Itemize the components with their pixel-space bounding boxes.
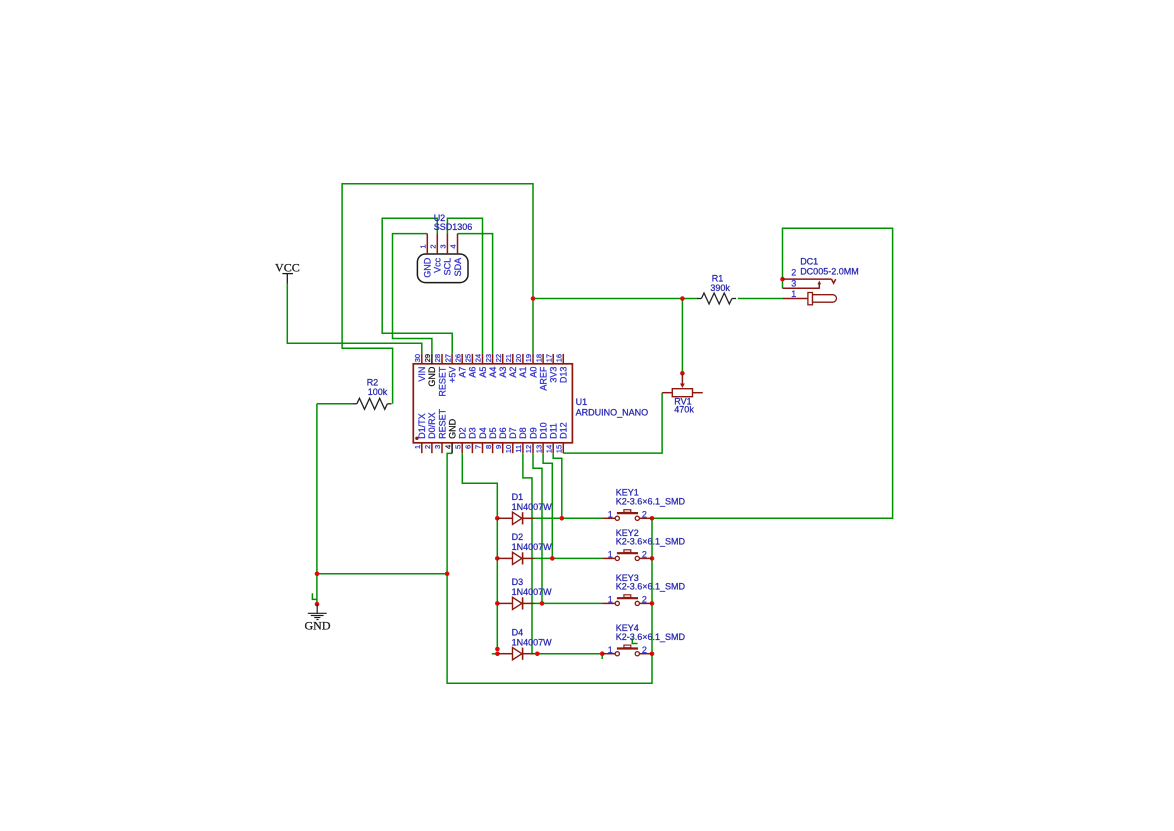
svg-text:14: 14 bbox=[544, 445, 553, 453]
svg-text:D12: D12 bbox=[559, 422, 569, 439]
junction KEY3 pin2 bbox=[650, 601, 655, 606]
wire U1 pin13 D10 to row2 node bbox=[543, 453, 552, 558]
wire DC1 pin2 loop to KEY1 pin2 node bbox=[652, 228, 893, 518]
wire node A0 to R1 left bbox=[533, 298, 698, 300]
diode D4 1N4007W bbox=[497, 648, 534, 660]
svg-text:1N4007W: 1N4007W bbox=[512, 542, 553, 552]
svg-text:9: 9 bbox=[494, 445, 503, 449]
junction GND rail left bbox=[315, 572, 320, 577]
switch KEY2 K2-3.6x6.1_SMD bbox=[603, 550, 652, 561]
junction D4 anode bbox=[495, 652, 500, 657]
resistor R2 bbox=[353, 403, 357, 405]
U1 bottom pin names bbox=[417, 408, 569, 439]
svg-text:390k: 390k bbox=[710, 283, 730, 293]
svg-text:SDA: SDA bbox=[453, 258, 463, 277]
junction row3 / D9 bbox=[540, 601, 545, 606]
wire U2 pin4 SDA to U1 pin23 A4 bbox=[458, 234, 493, 354]
svg-text:2: 2 bbox=[642, 595, 647, 605]
svg-text:1N4007W: 1N4007W bbox=[512, 587, 553, 597]
wire D2 cathode to KEY2 pin1 bbox=[534, 557, 603, 559]
svg-text:27: 27 bbox=[443, 354, 452, 362]
junction D3 anode bbox=[495, 601, 500, 606]
svg-text:2: 2 bbox=[791, 268, 796, 278]
svg-text:1: 1 bbox=[608, 645, 613, 655]
svg-text:26: 26 bbox=[453, 354, 462, 362]
svg-text:DC005-2.0MM: DC005-2.0MM bbox=[800, 267, 859, 277]
svg-text:D1/TX: D1/TX bbox=[417, 413, 427, 439]
svg-text:A0: A0 bbox=[528, 367, 538, 378]
svg-text:D2: D2 bbox=[512, 532, 524, 542]
svg-text:D1: D1 bbox=[512, 492, 524, 502]
svg-text:1: 1 bbox=[791, 289, 796, 299]
wire R2 right to node A0 and U1 pin19 bbox=[342, 184, 533, 404]
junction RV1 wiper net bbox=[680, 296, 685, 301]
svg-text:1: 1 bbox=[419, 244, 428, 248]
junction row2 / D10 bbox=[550, 556, 555, 561]
power VCC bbox=[282, 274, 293, 284]
svg-text:6: 6 bbox=[464, 445, 473, 449]
diode D3 1N4007W bbox=[497, 597, 534, 609]
svg-text:AREF: AREF bbox=[538, 366, 548, 391]
svg-text:3: 3 bbox=[791, 278, 796, 288]
wire VCC to U1 pin30 VIN bbox=[287, 283, 422, 354]
svg-text:GND: GND bbox=[447, 418, 457, 439]
diode D1 1N4007W bbox=[497, 512, 534, 524]
wire RV1 wiper to node A0 net bbox=[681, 299, 683, 373]
wire R2 left to GND symbol bbox=[316, 404, 318, 604]
U1 bottom pin numbers 1..15 bbox=[413, 445, 564, 453]
potentiometer RV1 bbox=[662, 373, 703, 397]
switch KEY1 K2-3.6x6.1_SMD bbox=[603, 510, 652, 521]
junction D2 anode bbox=[495, 556, 500, 561]
svg-text:1: 1 bbox=[608, 509, 613, 519]
junction KEY4 pin1 bbox=[600, 651, 605, 656]
svg-text:2: 2 bbox=[642, 550, 647, 560]
junction D1 anode bbox=[495, 516, 500, 521]
svg-text:D10: D10 bbox=[538, 422, 548, 439]
svg-text:+5V: +5V bbox=[447, 367, 457, 383]
svg-text:1: 1 bbox=[608, 595, 613, 605]
svg-text:D3: D3 bbox=[512, 577, 524, 587]
wire stub left of D4 anode bbox=[492, 653, 498, 655]
junction at GND symbol bbox=[315, 602, 320, 607]
wire D1 cathode to KEY1 pin1 bbox=[534, 517, 603, 519]
U2 pin names bbox=[423, 257, 463, 278]
svg-text:U1: U1 bbox=[576, 397, 588, 407]
wire R1 right to DC1 pin1 bbox=[738, 298, 783, 300]
wire U1 pin12 D9 to row3 node bbox=[533, 453, 542, 603]
svg-text:K2-3.6×6.1_SMD: K2-3.6×6.1_SMD bbox=[616, 537, 686, 547]
svg-text:DC1: DC1 bbox=[800, 256, 818, 266]
svg-text:28: 28 bbox=[433, 354, 442, 362]
svg-text:D4: D4 bbox=[512, 627, 524, 637]
svg-text:D4: D4 bbox=[478, 427, 488, 439]
svg-text:A6: A6 bbox=[468, 367, 478, 378]
svg-text:D0/RX: D0/RX bbox=[427, 412, 437, 439]
svg-text:4: 4 bbox=[449, 244, 458, 248]
svg-text:VIN: VIN bbox=[417, 367, 427, 382]
junction RV1 wiper pin bbox=[680, 371, 685, 376]
svg-text:2: 2 bbox=[642, 509, 647, 519]
svg-text:K2-3.6×6.1_SMD: K2-3.6×6.1_SMD bbox=[616, 582, 686, 592]
svg-text:SCL: SCL bbox=[443, 258, 453, 276]
ground GND symbol bbox=[308, 604, 327, 619]
svg-text:19: 19 bbox=[524, 354, 533, 362]
svg-text:17: 17 bbox=[544, 354, 553, 362]
U1 bottom pin stubs bbox=[422, 443, 564, 453]
junction row1 / D11 bbox=[560, 516, 565, 521]
wire hook above KEY4 bbox=[632, 638, 637, 643]
svg-text:15: 15 bbox=[555, 445, 564, 453]
svg-text:20: 20 bbox=[514, 354, 523, 362]
svg-text:D8: D8 bbox=[518, 427, 528, 439]
wire stub below KEY4 pin1 node bbox=[601, 654, 603, 659]
svg-text:30: 30 bbox=[413, 354, 422, 362]
svg-text:3V3: 3V3 bbox=[549, 367, 559, 383]
svg-text:470k: 470k bbox=[674, 404, 694, 414]
svg-text:D5: D5 bbox=[488, 427, 498, 439]
wire U1 pin5 D2 to diode anode column bbox=[462, 453, 497, 649]
svg-text:GND: GND bbox=[423, 257, 433, 278]
svg-text:ARDUINO_NANO: ARDUINO_NANO bbox=[576, 407, 649, 417]
wire U1 pin4 GND down around to key column bbox=[447, 453, 652, 683]
svg-text:2: 2 bbox=[423, 445, 432, 449]
svg-text:D11: D11 bbox=[549, 423, 559, 439]
junction D4 anode column upper bbox=[495, 647, 500, 652]
svg-text:RESET: RESET bbox=[437, 408, 447, 439]
svg-text:D7: D7 bbox=[508, 427, 518, 439]
svg-text:12: 12 bbox=[524, 445, 533, 453]
U1 top pin numbers 30..16 bbox=[413, 354, 564, 362]
junction node A0 / R1 / R2 bbox=[531, 296, 536, 301]
switch KEY4 K2-3.6x6.1_SMD bbox=[603, 645, 652, 656]
resistor R1 bbox=[697, 298, 701, 300]
svg-text:D2: D2 bbox=[458, 427, 468, 439]
junction KEY4 pin2 bbox=[650, 652, 655, 657]
wire U2 pin1 GND to U1 pin29 bbox=[393, 234, 432, 354]
svg-text:Vcc: Vcc bbox=[433, 257, 443, 273]
wire U2 pin2 Vcc to U1 pin27 +5V bbox=[382, 218, 452, 354]
svg-text:SSD1306: SSD1306 bbox=[434, 222, 473, 232]
connector U2 SSD1306 bbox=[417, 234, 468, 283]
svg-text:A7: A7 bbox=[458, 367, 468, 378]
svg-text:8: 8 bbox=[484, 445, 493, 449]
junction KEY2 pin2 bbox=[650, 556, 655, 561]
svg-text:GND: GND bbox=[305, 618, 331, 632]
svg-text:1: 1 bbox=[413, 445, 422, 449]
svg-text:1: 1 bbox=[608, 550, 613, 560]
wire U1 pin11 D8 to row4 node bbox=[523, 453, 602, 654]
connector DC1 DC005-2.0MM bbox=[783, 279, 837, 305]
svg-text:100k: 100k bbox=[368, 387, 388, 397]
wire DC1 pin2 to pin3 bbox=[782, 279, 784, 288]
svg-text:GND: GND bbox=[427, 366, 437, 387]
svg-text:D6: D6 bbox=[498, 427, 508, 439]
U1 pin1 marker dot bbox=[415, 437, 418, 440]
svg-text:11: 11 bbox=[514, 445, 523, 453]
junction KEY1 pin2 bbox=[650, 516, 655, 521]
svg-text:4: 4 bbox=[443, 445, 452, 449]
svg-text:5: 5 bbox=[453, 445, 462, 449]
svg-text:RESET: RESET bbox=[437, 366, 447, 397]
wire hook near GND symbol bbox=[312, 593, 317, 599]
junction GND rail right bbox=[445, 572, 450, 577]
svg-text:1N4007W: 1N4007W bbox=[512, 637, 553, 647]
junction DC1 pin2/pin3 bbox=[780, 277, 785, 282]
svg-text:13: 13 bbox=[534, 445, 543, 453]
svg-text:K2-3.6×6.1_SMD: K2-3.6×6.1_SMD bbox=[616, 497, 686, 507]
svg-text:10: 10 bbox=[504, 445, 513, 453]
svg-text:D3: D3 bbox=[468, 427, 478, 439]
svg-text:18: 18 bbox=[534, 354, 543, 362]
wire D3 cathode to KEY3 pin1 bbox=[534, 602, 603, 604]
IC U1 ARDUINO_NANO body bbox=[413, 364, 572, 443]
svg-text:D13: D13 bbox=[559, 367, 569, 384]
svg-text:K2-3.6×6.1_SMD: K2-3.6×6.1_SMD bbox=[616, 632, 686, 642]
svg-text:21: 21 bbox=[504, 354, 513, 362]
svg-text:16: 16 bbox=[555, 354, 564, 362]
svg-text:VCC: VCC bbox=[275, 261, 300, 275]
svg-text:A2: A2 bbox=[508, 367, 518, 378]
junction row4 / D8 bbox=[535, 652, 540, 657]
wire to R2 left lead bbox=[317, 403, 353, 405]
wire U2 pin3 SCL to U1 pin24 A5 bbox=[447, 218, 482, 354]
wire GND rail bbox=[317, 573, 447, 575]
svg-text:2: 2 bbox=[642, 645, 647, 655]
svg-text:2: 2 bbox=[429, 244, 438, 248]
svg-text:D9: D9 bbox=[528, 427, 538, 439]
svg-text:23: 23 bbox=[484, 354, 493, 362]
svg-text:3: 3 bbox=[433, 445, 442, 449]
wire U1 pin14 D11 to row1 node bbox=[553, 453, 562, 518]
wire RV1 pin1 to U1 pin15 D12 bbox=[563, 393, 662, 453]
svg-text:7: 7 bbox=[474, 445, 483, 449]
svg-text:A1: A1 bbox=[518, 367, 528, 378]
svg-text:A3: A3 bbox=[498, 367, 508, 378]
U1 top pin stubs bbox=[422, 354, 564, 364]
U2 pin numbers bbox=[419, 244, 458, 248]
svg-text:1N4007W: 1N4007W bbox=[512, 502, 553, 512]
svg-text:25: 25 bbox=[464, 354, 473, 362]
svg-text:A5: A5 bbox=[478, 367, 488, 378]
svg-text:22: 22 bbox=[494, 354, 503, 362]
svg-text:24: 24 bbox=[474, 354, 483, 362]
diode D2 1N4007W bbox=[497, 552, 534, 564]
svg-text:29: 29 bbox=[423, 354, 432, 362]
svg-text:3: 3 bbox=[439, 244, 448, 248]
switch KEY3 K2-3.6x6.1_SMD bbox=[603, 595, 652, 606]
svg-text:A4: A4 bbox=[488, 367, 498, 378]
U1 top pin names bbox=[417, 366, 569, 397]
